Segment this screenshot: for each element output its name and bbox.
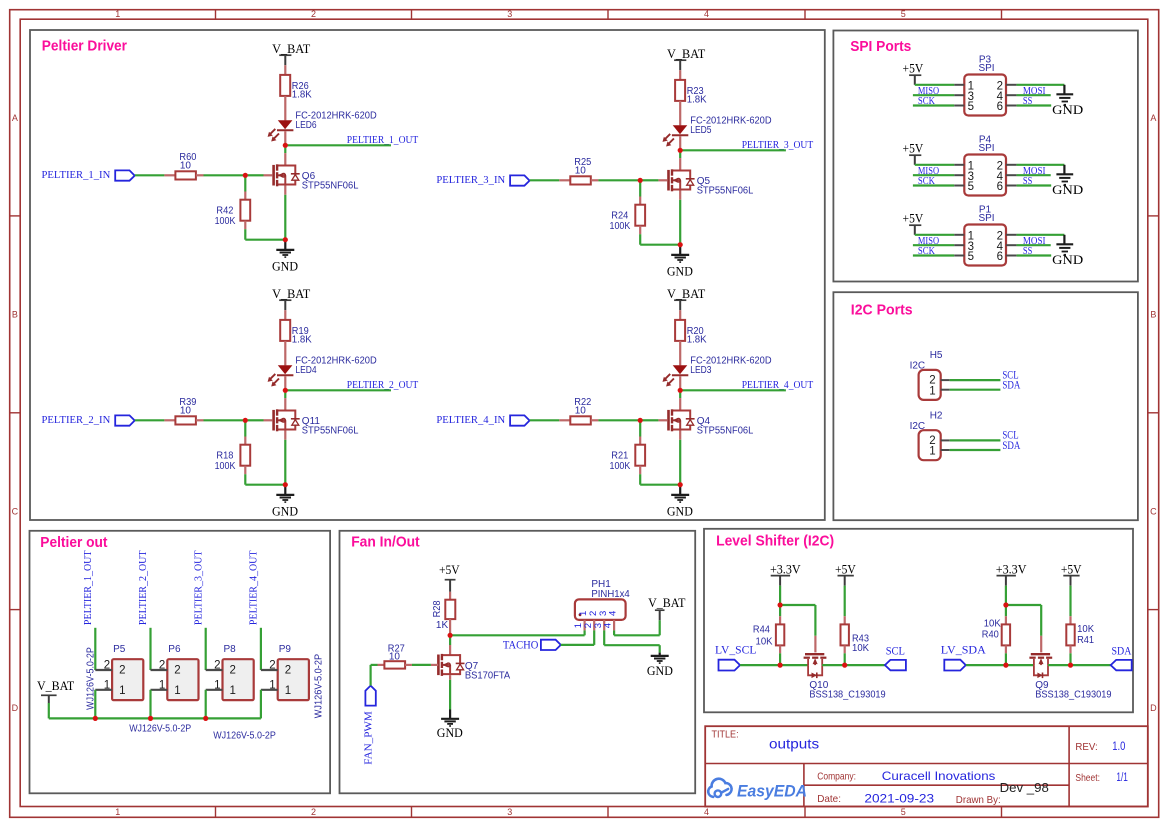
resistor R23 <box>675 80 707 106</box>
transistor Q4 <box>658 409 753 436</box>
power +3.3V <box>996 562 1027 586</box>
ground <box>1052 165 1083 197</box>
svg-text:WJ126V-5.0-2P: WJ126V-5.0-2P <box>314 654 325 719</box>
svg-text:I2C Ports: I2C Ports <box>851 302 913 319</box>
svg-text:WJ126V-5.0-2P: WJ126V-5.0-2P <box>129 724 191 735</box>
wire <box>1069 645 1071 663</box>
svg-text:V_BAT: V_BAT <box>37 678 74 693</box>
wire <box>284 131 286 143</box>
svg-text:PELTIER_2_OUT: PELTIER_2_OUT <box>347 380 419 391</box>
LED LED3 <box>663 355 772 386</box>
junction <box>778 602 783 607</box>
svg-text:10: 10 <box>180 161 192 172</box>
svg-text:Drawn By:: Drawn By: <box>956 794 1001 806</box>
wire <box>260 628 262 670</box>
svg-text:H5: H5 <box>930 350 943 361</box>
svg-text:P9: P9 <box>279 644 292 655</box>
port PELTIER_3_IN <box>436 175 529 186</box>
port FAN_PWM <box>363 686 376 765</box>
svg-text:SPI Ports: SPI Ports <box>850 38 911 55</box>
svg-text:TITLE:: TITLE: <box>712 730 739 741</box>
svg-text:6: 6 <box>997 181 1003 193</box>
wire <box>779 645 781 663</box>
wire <box>680 149 786 151</box>
resistor R28 <box>432 600 455 631</box>
svg-text:SCK: SCK <box>918 95 935 107</box>
svg-text:SCK: SCK <box>918 245 935 257</box>
LED LED4 <box>268 355 377 386</box>
svg-text:Curacell Inovations: Curacell Inovations <box>882 769 996 783</box>
resistor R25 <box>570 157 591 184</box>
LED LED5 <box>663 115 772 146</box>
svg-text:1: 1 <box>115 807 120 817</box>
svg-text:SDA: SDA <box>1002 438 1020 452</box>
wire <box>844 586 846 625</box>
junction <box>678 148 683 153</box>
port PELTIER_4_IN <box>436 415 529 426</box>
svg-text:Level Shifter (I2C): Level Shifter (I2C) <box>716 532 834 549</box>
svg-text:A: A <box>1150 113 1156 123</box>
wire <box>1069 586 1071 625</box>
wire <box>449 619 451 634</box>
ground <box>272 485 298 519</box>
junction <box>243 173 248 178</box>
svg-text:PELTIER_2_OUT: PELTIER_2_OUT <box>138 551 149 626</box>
wire <box>643 419 659 421</box>
wire <box>284 148 286 167</box>
svg-text:PINH1x4: PINH1x4 <box>591 589 630 600</box>
svg-text:STP55NF06L: STP55NF06L <box>302 426 359 437</box>
svg-text:GND: GND <box>1052 182 1083 197</box>
svg-text:GND: GND <box>667 263 693 278</box>
svg-text:+5V: +5V <box>903 211 924 226</box>
ground <box>667 245 693 279</box>
wire <box>244 175 246 199</box>
connector H2 <box>910 410 950 460</box>
resistor R19 <box>280 320 312 346</box>
svg-text:Dev _98: Dev _98 <box>1000 781 1049 795</box>
wire <box>679 310 681 320</box>
svg-text:SS: SS <box>1023 175 1032 187</box>
section box Peltier Driver <box>30 30 825 520</box>
wire <box>614 620 660 635</box>
wire <box>284 376 286 388</box>
svg-text:100K: 100K <box>610 461 631 472</box>
title block frame <box>705 726 1148 806</box>
svg-text:GND: GND <box>437 725 463 740</box>
svg-text:LED3: LED3 <box>690 365 712 376</box>
svg-text:Peltier out: Peltier out <box>40 534 107 551</box>
svg-text:P5: P5 <box>113 644 126 655</box>
wire <box>245 221 284 240</box>
resistor R22 <box>570 397 591 424</box>
connector PH1 <box>573 579 630 630</box>
ground <box>647 653 673 678</box>
wire <box>643 179 659 181</box>
wire <box>561 630 594 645</box>
port LV_SCL <box>715 642 756 670</box>
svg-text:10: 10 <box>180 406 192 417</box>
frame column ticks and numbers <box>115 9 1001 817</box>
wire <box>679 341 681 366</box>
svg-text:1: 1 <box>174 685 180 697</box>
svg-text:B: B <box>1150 310 1156 320</box>
svg-text:10K: 10K <box>756 637 773 648</box>
power +5V <box>835 562 856 586</box>
svg-text:1: 1 <box>929 446 935 458</box>
svg-text:V_BAT: V_BAT <box>272 286 310 301</box>
svg-text:SDA: SDA <box>1112 644 1132 658</box>
section box Level Shifter (I2C) <box>704 529 1133 713</box>
svg-text:D: D <box>1150 703 1157 713</box>
wire <box>149 690 151 719</box>
wire <box>604 630 660 652</box>
svg-text:+5V: +5V <box>1061 562 1082 577</box>
svg-text:+5V: +5V <box>903 61 924 76</box>
wire <box>284 186 286 239</box>
wire <box>1017 235 1065 256</box>
svg-text:C: C <box>12 506 19 516</box>
junction <box>243 418 248 423</box>
junction <box>448 633 453 638</box>
junction <box>283 237 288 242</box>
wire <box>205 628 207 670</box>
connector P4 <box>954 134 1016 195</box>
junction <box>638 178 643 183</box>
resistor R20 <box>675 320 707 346</box>
wire <box>49 703 261 718</box>
svg-text:PELTIER_1_OUT: PELTIER_1_OUT <box>83 551 94 626</box>
frame row ticks and letters <box>10 113 1159 713</box>
svg-text:Company:: Company: <box>817 771 856 783</box>
svg-text:GND: GND <box>1052 102 1083 117</box>
section box Peltier out <box>30 531 331 794</box>
port PELTIER_2_IN <box>42 415 135 426</box>
wire <box>284 393 286 412</box>
svg-text:Date:: Date: <box>817 793 841 805</box>
svg-text:PELTIER_4_OUT: PELTIER_4_OUT <box>742 380 814 391</box>
svg-text:1: 1 <box>285 685 291 697</box>
svg-text:3: 3 <box>507 9 512 19</box>
svg-text:2: 2 <box>311 807 316 817</box>
svg-text:P6: P6 <box>168 644 181 655</box>
svg-text:V_BAT: V_BAT <box>272 41 310 56</box>
power +5V <box>903 141 924 165</box>
junction <box>1003 602 1008 607</box>
svg-text:LED6: LED6 <box>295 120 317 131</box>
wire <box>196 419 244 421</box>
wire <box>205 690 207 719</box>
svg-text:Fan In/Out: Fan In/Out <box>351 533 420 550</box>
junction <box>283 143 288 148</box>
wire <box>149 628 151 670</box>
transistor Q5 <box>658 169 753 196</box>
connector P5 <box>95 644 143 700</box>
svg-text:1: 1 <box>115 9 120 19</box>
wire <box>248 174 264 176</box>
svg-text:R28: R28 <box>432 600 443 617</box>
wire <box>950 440 1001 450</box>
wire <box>779 607 781 624</box>
svg-text:4: 4 <box>704 9 709 19</box>
resistor R26 <box>280 75 312 101</box>
wire <box>1017 165 1065 186</box>
junction <box>93 716 98 721</box>
wire <box>1006 605 1041 652</box>
junction <box>203 716 208 721</box>
port LV_SDA <box>941 642 986 670</box>
wire <box>1005 586 1007 603</box>
wire <box>450 634 584 636</box>
ground <box>667 485 693 519</box>
svg-text:LED4: LED4 <box>295 365 317 376</box>
wire <box>1005 607 1007 624</box>
power +5V <box>1061 562 1082 586</box>
svg-text:+5V: +5V <box>903 141 924 156</box>
svg-text:outputs: outputs <box>769 736 819 751</box>
svg-text:GND: GND <box>272 503 298 518</box>
svg-text:GND: GND <box>272 258 298 273</box>
junction <box>148 716 153 721</box>
resistor R60 <box>175 152 196 179</box>
wire <box>245 466 284 485</box>
svg-text:100K: 100K <box>215 461 236 472</box>
power +5V <box>903 211 924 235</box>
wire <box>591 179 639 181</box>
wire <box>680 389 786 391</box>
wire <box>135 419 176 421</box>
svg-text:SCK: SCK <box>918 175 935 187</box>
power +5V <box>903 61 924 85</box>
wire <box>639 420 641 444</box>
wire <box>530 419 571 421</box>
resistor R43 <box>841 624 870 654</box>
svg-text:5: 5 <box>901 9 906 19</box>
wire <box>449 638 451 656</box>
resistor R41 <box>1066 624 1094 646</box>
svg-text:1: 1 <box>159 679 165 691</box>
section box Fan In/Out <box>340 531 696 794</box>
wire <box>679 431 681 484</box>
junction <box>1068 663 1073 668</box>
resistor R40 <box>982 619 1010 646</box>
power V_BAT <box>37 678 74 703</box>
svg-text:SPI: SPI <box>978 63 994 74</box>
junction <box>638 418 643 423</box>
connector P8 <box>206 644 254 700</box>
port TACHO <box>503 637 561 651</box>
wire <box>1017 85 1065 106</box>
wire <box>284 65 286 75</box>
svg-text:FAN_PWM: FAN_PWM <box>363 711 374 765</box>
svg-text:PELTIER_4_OUT: PELTIER_4_OUT <box>249 551 260 626</box>
svg-text:1: 1 <box>230 685 236 697</box>
wire <box>679 393 681 412</box>
power V_BAT <box>272 286 310 310</box>
resistor R44 <box>753 624 784 647</box>
resistor R18 <box>215 445 251 472</box>
wire <box>640 466 679 485</box>
connector P1 <box>954 204 1016 265</box>
wire <box>679 70 681 80</box>
svg-text:EasyEDA: EasyEDA <box>737 783 807 801</box>
wire <box>639 180 641 204</box>
svg-text:R44: R44 <box>753 624 770 635</box>
svg-text:1.8K: 1.8K <box>687 95 707 106</box>
wire <box>260 690 262 719</box>
svg-text:H2: H2 <box>930 410 943 421</box>
wire <box>284 310 286 320</box>
svg-text:2: 2 <box>311 9 316 19</box>
transistor Q6 <box>264 164 359 191</box>
section box SPI Ports <box>833 31 1138 282</box>
svg-text:2: 2 <box>104 660 110 672</box>
svg-text:1.8K: 1.8K <box>687 335 707 346</box>
svg-text:PELTIER_1_OUT: PELTIER_1_OUT <box>347 135 419 146</box>
junction <box>678 242 683 247</box>
junction <box>678 482 683 487</box>
svg-text:1/1: 1/1 <box>1116 772 1128 784</box>
svg-text:10: 10 <box>575 166 587 177</box>
wire <box>591 419 639 421</box>
svg-text:SPI: SPI <box>978 143 994 154</box>
svg-text:GND: GND <box>667 503 693 518</box>
svg-text:SS: SS <box>1023 95 1032 107</box>
svg-text:BS170FTA: BS170FTA <box>465 670 511 681</box>
wire <box>679 153 681 172</box>
svg-text:LV_SDA: LV_SDA <box>941 642 986 656</box>
svg-text:STP55NF06L: STP55NF06L <box>697 426 754 437</box>
svg-text:10K: 10K <box>1077 624 1094 635</box>
svg-text:1: 1 <box>119 685 125 697</box>
resistor R24 <box>610 205 646 232</box>
ground <box>1052 235 1083 267</box>
connector P9 <box>261 644 309 700</box>
svg-text:SCL: SCL <box>886 644 905 658</box>
svg-text:WJ126V-5.0-2P: WJ126V-5.0-2P <box>213 731 276 742</box>
wire <box>248 419 264 421</box>
svg-text:Sheet:: Sheet: <box>1075 772 1100 784</box>
svg-text:A: A <box>12 113 18 123</box>
svg-text:SS: SS <box>1023 245 1032 257</box>
svg-text:6: 6 <box>997 251 1003 263</box>
ground <box>272 240 298 274</box>
resistor R42 <box>215 200 251 227</box>
svg-text:PELTIER_1_IN: PELTIER_1_IN <box>42 170 111 181</box>
svg-text:V_BAT: V_BAT <box>667 46 705 61</box>
wire <box>285 144 391 146</box>
svg-text:5: 5 <box>901 807 906 817</box>
svg-text:STP55NF06L: STP55NF06L <box>697 186 754 197</box>
svg-text:10K: 10K <box>852 643 869 654</box>
transistor Q10 <box>804 654 886 700</box>
resistor R27 <box>384 643 405 668</box>
LED LED6 <box>268 110 377 141</box>
svg-text:2: 2 <box>159 660 165 672</box>
svg-text:100K: 100K <box>215 216 236 227</box>
port SDA <box>1111 660 1132 670</box>
wire <box>679 191 681 244</box>
svg-text:R41: R41 <box>1077 635 1094 646</box>
svg-text:2: 2 <box>230 665 236 677</box>
svg-text:4: 4 <box>704 807 709 817</box>
svg-text:LED5: LED5 <box>690 125 712 136</box>
svg-text:BSS138_C193019: BSS138_C193019 <box>1035 689 1112 700</box>
svg-text:1.8K: 1.8K <box>292 335 312 346</box>
svg-text:4: 4 <box>608 611 619 616</box>
wire <box>284 431 286 484</box>
svg-text:GND: GND <box>647 663 673 678</box>
connector H5 <box>910 350 950 400</box>
wire <box>244 420 246 444</box>
svg-text:1.0: 1.0 <box>1112 741 1125 753</box>
wire <box>94 690 96 719</box>
junction <box>283 388 288 393</box>
svg-text:5: 5 <box>968 181 974 193</box>
power V_BAT <box>648 595 685 620</box>
svg-text:2: 2 <box>214 660 220 672</box>
power +3.3V <box>770 562 801 586</box>
wire <box>679 136 681 148</box>
svg-text:SDA: SDA <box>1002 378 1020 392</box>
wire <box>822 664 885 666</box>
port SCL <box>885 660 906 670</box>
svg-text:+3.3V: +3.3V <box>770 562 801 577</box>
port PELTIER_1_IN <box>42 170 135 181</box>
junction <box>842 663 847 668</box>
power V_BAT <box>272 41 310 65</box>
svg-text:GND: GND <box>1052 252 1083 267</box>
transistor Q9 <box>1029 654 1111 700</box>
svg-text:PELTIER_3_OUT: PELTIER_3_OUT <box>193 551 204 626</box>
wire <box>196 174 244 176</box>
svg-text:B: B <box>12 310 18 320</box>
svg-text:1K: 1K <box>436 620 449 631</box>
connector P3 <box>954 54 1016 115</box>
wire <box>780 605 815 652</box>
svg-text:R40: R40 <box>982 629 999 640</box>
wire <box>371 665 385 686</box>
svg-text:REV:: REV: <box>1075 741 1097 753</box>
power +5V <box>439 562 460 592</box>
svg-text:2: 2 <box>174 665 180 677</box>
wire <box>679 101 681 126</box>
wire <box>94 628 96 670</box>
wire <box>1005 645 1007 663</box>
ground <box>437 710 463 741</box>
transistor Q7 <box>431 654 511 682</box>
junction <box>283 482 288 487</box>
svg-text:2: 2 <box>119 665 125 677</box>
wire <box>285 389 391 391</box>
svg-text:STP55NF06L: STP55NF06L <box>302 181 359 192</box>
junction <box>1003 663 1008 668</box>
junction <box>678 388 683 393</box>
svg-text:6: 6 <box>997 101 1003 113</box>
svg-text:+5V: +5V <box>835 562 856 577</box>
svg-text:100K: 100K <box>610 221 631 232</box>
svg-text:1: 1 <box>104 679 110 691</box>
svg-text:5: 5 <box>968 101 974 113</box>
svg-text:1: 1 <box>214 679 220 691</box>
power V_BAT <box>667 46 705 70</box>
svg-text:+3.3V: +3.3V <box>996 562 1027 577</box>
ground <box>1052 85 1083 117</box>
svg-text:PELTIER_3_IN: PELTIER_3_IN <box>436 175 505 186</box>
svg-text:Peltier Driver: Peltier Driver <box>42 38 127 55</box>
svg-text:LV_SCL: LV_SCL <box>715 642 756 656</box>
connector P6 <box>151 644 199 700</box>
